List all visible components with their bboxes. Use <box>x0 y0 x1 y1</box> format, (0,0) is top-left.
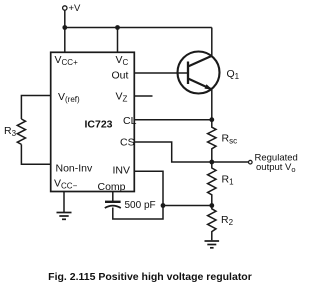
resistor R1 <box>208 162 216 206</box>
wire collector to rail <box>211 28 213 57</box>
wire Vcc- to ground <box>63 192 65 213</box>
wire Vref pin to R3 <box>21 96 50 120</box>
wire R3 to Non-Inv pin <box>21 144 50 164</box>
resistor R2 <box>208 206 216 241</box>
ground under R2 <box>205 241 220 248</box>
wire INV pin (stepped down) <box>113 171 163 219</box>
svg-text:+V: +V <box>69 3 82 14</box>
resistor R3 <box>17 119 25 144</box>
svg-text:IC723: IC723 <box>85 119 113 131</box>
node junction R1/R2/feedback <box>209 203 214 208</box>
resistor Rsc <box>208 120 216 162</box>
wire top rail <box>65 27 212 29</box>
transistor Q1 <box>178 52 220 94</box>
svg-text:500 pF: 500 pF <box>125 200 156 211</box>
wire +V down to rail <box>64 10 66 27</box>
wire CL pin <box>134 119 212 121</box>
wire CS pin (stepped) <box>134 142 212 162</box>
svg-text:Fig. 2.115 Positive high volta: Fig. 2.115 Positive high voltage regulat… <box>48 271 252 283</box>
wire emitter down <box>211 90 213 120</box>
svg-text:CS: CS <box>120 137 135 149</box>
wire Vcc+ pin <box>64 28 66 53</box>
node junction INV/feedback <box>161 203 166 208</box>
svg-text:Out: Out <box>112 70 129 82</box>
capacitor C1 stem from Comp <box>112 192 114 202</box>
svg-text:VZ: VZ <box>116 91 128 104</box>
output terminal <box>249 160 253 164</box>
svg-text:R1: R1 <box>222 174 235 187</box>
wire feedback node to R1/R2 <box>163 205 212 207</box>
svg-text:Comp: Comp <box>98 181 126 193</box>
capacitor C1 plates <box>105 201 121 203</box>
+V terminal <box>63 6 67 10</box>
svg-text:VCC+: VCC+ <box>55 54 79 67</box>
svg-text:Q1: Q1 <box>227 68 240 81</box>
op-amp U1 IC723 box <box>51 52 135 191</box>
svg-text:Non-Inv: Non-Inv <box>56 163 94 175</box>
ground under Vcc- <box>57 213 72 220</box>
wire to output terminal <box>212 161 249 163</box>
wire Vc pin <box>117 28 119 53</box>
svg-text:R3: R3 <box>4 125 17 138</box>
svg-text:VC: VC <box>116 54 129 67</box>
wire Out pin to base <box>134 72 188 74</box>
svg-text:INV: INV <box>113 165 131 177</box>
node junction Rsc/R1/CS/output <box>209 160 214 165</box>
svg-text:output Vo: output Vo <box>256 162 296 174</box>
node junction CL/emitter/Rsc <box>209 117 214 122</box>
wire Vz stub <box>134 95 152 97</box>
svg-text:R2: R2 <box>221 214 234 227</box>
svg-text:CL: CL <box>123 115 137 127</box>
svg-text:VCC−: VCC− <box>54 178 78 191</box>
svg-text:V(ref): V(ref) <box>58 91 80 104</box>
node junction at Vc <box>115 25 120 30</box>
svg-text:Rsc: Rsc <box>222 133 238 146</box>
node junction at Vcc+ rail <box>62 25 67 30</box>
